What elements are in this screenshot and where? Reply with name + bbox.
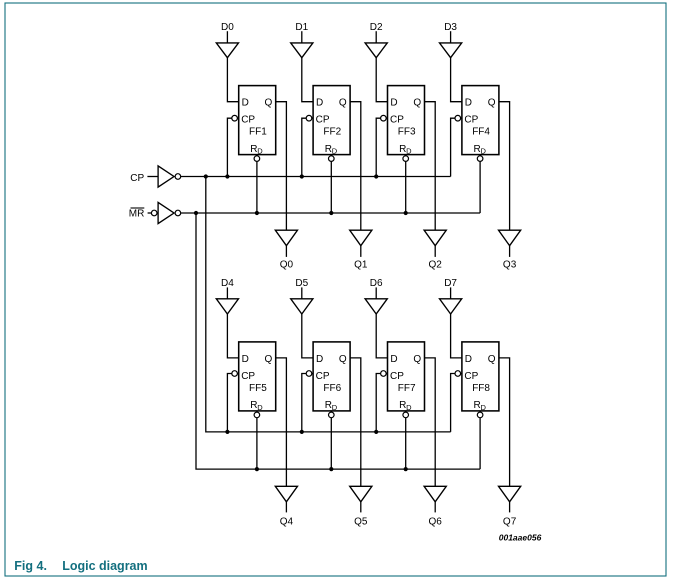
wire: buffer output to FF5 D input <box>227 314 238 358</box>
wire: CP bus to FF2 CP <box>302 118 313 176</box>
svg-text:Q: Q <box>339 98 347 109</box>
svg-text:Q2: Q2 <box>429 260 443 271</box>
svg-text:D: D <box>257 147 263 156</box>
svg-text:001aae056: 001aae056 <box>499 533 542 543</box>
buffer (Q0 output) <box>275 230 297 246</box>
svg-text:Q: Q <box>339 354 347 365</box>
svg-text:CP: CP <box>316 115 330 126</box>
wire: D4 label to buffer <box>226 287 228 298</box>
junction: CP bus / FF5 CP <box>225 430 229 434</box>
wire: buffer to Q6 label <box>434 502 436 513</box>
flip-flop FF6 <box>313 342 350 412</box>
FF3 CP input bubble <box>381 115 387 121</box>
wire: D0 label to buffer <box>226 31 228 43</box>
junction: CP bus / feed <box>204 174 208 178</box>
svg-text:FF5: FF5 <box>249 383 267 394</box>
wire: CP bus to FF7 CP <box>376 374 387 432</box>
wire: FF5 RD to MR bus <box>256 411 258 469</box>
wire: buffer output to FF3 D input <box>376 58 387 102</box>
U2 input bubble <box>151 210 157 216</box>
svg-text:D: D <box>406 147 412 156</box>
FF4 RD input bubble <box>477 156 483 162</box>
junction: CP bus / FF1 CP <box>225 174 229 178</box>
svg-text:Q: Q <box>265 98 273 109</box>
FF1 RD input bubble <box>254 156 260 162</box>
FF7 RD input bubble <box>403 412 409 418</box>
svg-text:Q1: Q1 <box>354 260 368 271</box>
svg-text:D: D <box>406 403 412 412</box>
svg-text:D: D <box>390 354 397 365</box>
junction: CP bus / FF2 CP <box>300 174 304 178</box>
buffer (Q7 output) <box>499 486 521 502</box>
wire: CP bus feed to bottom row <box>206 177 451 432</box>
buffer (Q5 output) <box>350 486 372 502</box>
FF6 CP input bubble <box>306 371 312 377</box>
wire: MR label to inverter <box>148 212 152 214</box>
flip-flop FF3 <box>388 86 425 156</box>
wire: buffer output to FF8 D input <box>451 314 462 358</box>
wire: FF6 RD to MR bus <box>330 411 332 469</box>
FF2 CP input bubble <box>306 115 312 121</box>
svg-text:D: D <box>481 147 487 156</box>
flip-flop FF5 <box>239 342 276 412</box>
buffer (Q2 output) <box>424 230 446 246</box>
svg-text:FF7: FF7 <box>398 383 416 394</box>
svg-text:D: D <box>465 98 472 109</box>
flip-flop FF1 <box>239 86 276 156</box>
svg-text:FF3: FF3 <box>398 127 416 138</box>
wire: CP bus to FF8 CP <box>451 374 462 432</box>
wire: D1 label to buffer <box>301 31 303 43</box>
flip-flop FF8 <box>462 342 499 412</box>
wire: CP bus to FF5 CP <box>227 374 238 432</box>
svg-text:D: D <box>242 98 249 109</box>
svg-text:FF8: FF8 <box>472 383 490 394</box>
wire: FF3 RD to MR bus <box>405 155 407 213</box>
inverter U1 (CP) <box>158 166 174 187</box>
svg-text:Q6: Q6 <box>429 516 443 527</box>
wire: FF1 RD to MR bus <box>256 155 258 213</box>
FF8 CP input bubble <box>455 371 461 377</box>
buffer (Q3 output) <box>499 230 521 246</box>
flip-flop FF7 <box>388 342 425 412</box>
wire: FF6 Q output to buffer <box>350 358 361 486</box>
buffer (Q6 output) <box>424 486 446 502</box>
junction: MR bus / feed <box>194 211 198 215</box>
wire: FF2 Q output to buffer <box>350 102 361 231</box>
junction: MR bus / FF3 RD <box>404 211 408 215</box>
wire: FF3 Q output to buffer <box>425 102 436 231</box>
junction: CP bus / FF7 CP <box>374 430 378 434</box>
wire: D7 label to buffer <box>450 287 452 298</box>
U1 output bubble <box>175 174 181 180</box>
wire: FF4 RD to MR bus <box>479 155 481 213</box>
wire: buffer to Q0 label <box>285 246 287 257</box>
wire: buffer to Q1 label <box>360 246 362 257</box>
inverter U2 (MR) <box>158 202 174 223</box>
overline on MR <box>131 207 145 209</box>
node CP bus (top row) <box>181 176 451 178</box>
junction: MR bus / FF1 RD <box>255 211 259 215</box>
flip-flop FF4 <box>462 86 499 156</box>
svg-text:D: D <box>465 354 472 365</box>
flip-flop FF2 <box>313 86 350 156</box>
junction: CP bus / FF6 CP <box>300 430 304 434</box>
wire: buffer to Q5 label <box>360 502 362 513</box>
FF1 CP input bubble <box>232 115 238 121</box>
svg-text:D: D <box>316 354 323 365</box>
svg-text:FF6: FF6 <box>323 383 341 394</box>
svg-text:Fig 4.: Fig 4. <box>14 559 47 573</box>
wire: FF4 Q output to buffer <box>499 102 510 231</box>
svg-text:D: D <box>316 98 323 109</box>
buffer (D1 input) <box>291 43 313 58</box>
wire: buffer to Q3 label <box>509 246 511 257</box>
svg-text:D: D <box>332 403 338 412</box>
buffer (D7 input) <box>440 299 462 314</box>
wire: FF1 Q output to buffer <box>276 102 287 231</box>
wire: FF7 Q output to buffer <box>425 358 436 486</box>
junction: MR bus / FF2 RD <box>329 211 333 215</box>
buffer (Q4 output) <box>275 486 297 502</box>
wire: FF8 RD to MR bus <box>479 411 481 469</box>
wire: D2 label to buffer <box>375 31 377 43</box>
svg-text:D: D <box>242 354 249 365</box>
svg-text:CP: CP <box>390 115 404 126</box>
junction: MR bus / FF5 RD <box>255 467 259 471</box>
wire: buffer output to FF1 D input <box>227 58 238 102</box>
buffer (D5 input) <box>291 299 313 314</box>
svg-text:Logic diagram: Logic diagram <box>62 559 147 573</box>
svg-text:D: D <box>481 403 487 412</box>
buffer (D0 input) <box>216 43 238 58</box>
svg-text:D: D <box>332 147 338 156</box>
wire: buffer to Q7 label <box>509 502 511 513</box>
svg-text:Q: Q <box>265 354 273 365</box>
FF2 RD input bubble <box>329 156 335 162</box>
junction: MR bus / FF6 RD <box>329 467 333 471</box>
wire: CP bus to FF1 CP <box>227 118 238 176</box>
wire: buffer output to FF4 D input <box>451 58 462 102</box>
junction: MR bus / FF7 RD <box>404 467 408 471</box>
wire: FF8 Q output to buffer <box>499 358 510 486</box>
svg-text:CP: CP <box>316 371 330 382</box>
node MR bus (top row) <box>181 212 480 214</box>
FF3 RD input bubble <box>403 156 409 162</box>
svg-text:Q4: Q4 <box>280 516 294 527</box>
wire: CP bus to FF4 CP <box>451 118 462 176</box>
wire: CP bus to FF3 CP <box>376 118 387 176</box>
FF4 CP input bubble <box>455 115 461 121</box>
buffer (D2 input) <box>365 43 387 58</box>
wire: buffer output to FF2 D input <box>302 58 313 102</box>
buffer (D4 input) <box>216 299 238 314</box>
wire: D3 label to buffer <box>450 31 452 43</box>
FF7 CP input bubble <box>381 371 387 377</box>
svg-text:Q: Q <box>488 354 496 365</box>
wire: buffer output to FF6 D input <box>302 314 313 358</box>
svg-text:D: D <box>257 403 263 412</box>
wire: D6 label to buffer <box>375 287 377 298</box>
svg-text:CP: CP <box>241 115 255 126</box>
svg-text:FF2: FF2 <box>323 127 341 138</box>
FF5 RD input bubble <box>254 412 260 418</box>
junction: CP bus / FF3 CP <box>374 174 378 178</box>
svg-text:MR: MR <box>129 209 145 220</box>
wire: buffer output to FF7 D input <box>376 314 387 358</box>
wire: CP label to inverter <box>147 176 158 178</box>
buffer (D6 input) <box>365 299 387 314</box>
wire: CP bus to FF6 CP <box>302 374 313 432</box>
svg-text:CP: CP <box>464 371 478 382</box>
buffer (Q1 output) <box>350 230 372 246</box>
svg-text:D: D <box>390 98 397 109</box>
svg-text:CP: CP <box>241 371 255 382</box>
U2 output bubble <box>175 210 181 216</box>
svg-text:Q3: Q3 <box>503 260 517 271</box>
svg-text:CP: CP <box>390 371 404 382</box>
svg-text:Q0: Q0 <box>280 260 294 271</box>
FF5 CP input bubble <box>232 371 238 377</box>
buffer (D3 input) <box>440 43 462 58</box>
svg-text:FF1: FF1 <box>249 127 267 138</box>
svg-text:Q: Q <box>488 98 496 109</box>
FF6 RD input bubble <box>329 412 335 418</box>
svg-text:Q5: Q5 <box>354 516 368 527</box>
svg-text:FF4: FF4 <box>472 127 490 138</box>
wire: FF5 Q output to buffer <box>276 358 287 486</box>
svg-text:Q: Q <box>413 354 421 365</box>
wire: FF7 RD to MR bus <box>405 411 407 469</box>
wire: D5 label to buffer <box>301 287 303 298</box>
FF8 RD input bubble <box>477 412 483 418</box>
svg-text:CP: CP <box>130 173 144 184</box>
wire: buffer to Q4 label <box>285 502 287 513</box>
wire: buffer to Q2 label <box>434 246 436 257</box>
svg-text:Q7: Q7 <box>503 516 517 527</box>
wire: MR bus feed to bottom row <box>196 213 480 469</box>
svg-text:Q: Q <box>413 98 421 109</box>
wire: FF2 RD to MR bus <box>330 155 332 213</box>
svg-text:CP: CP <box>464 115 478 126</box>
